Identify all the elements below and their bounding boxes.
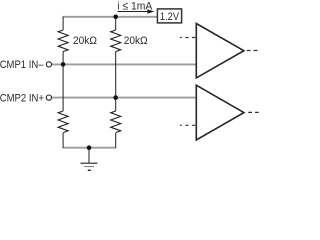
svg-text:CMP2 IN+: CMP2 IN+: [0, 92, 44, 104]
svg-text:i ≤ 1mA: i ≤ 1mA: [117, 0, 152, 12]
svg-text:20kΩ: 20kΩ: [73, 35, 97, 47]
svg-text:CMP1 IN–: CMP1 IN–: [0, 59, 44, 71]
svg-text:1.2V: 1.2V: [160, 11, 180, 23]
svg-text:20kΩ: 20kΩ: [124, 35, 148, 47]
